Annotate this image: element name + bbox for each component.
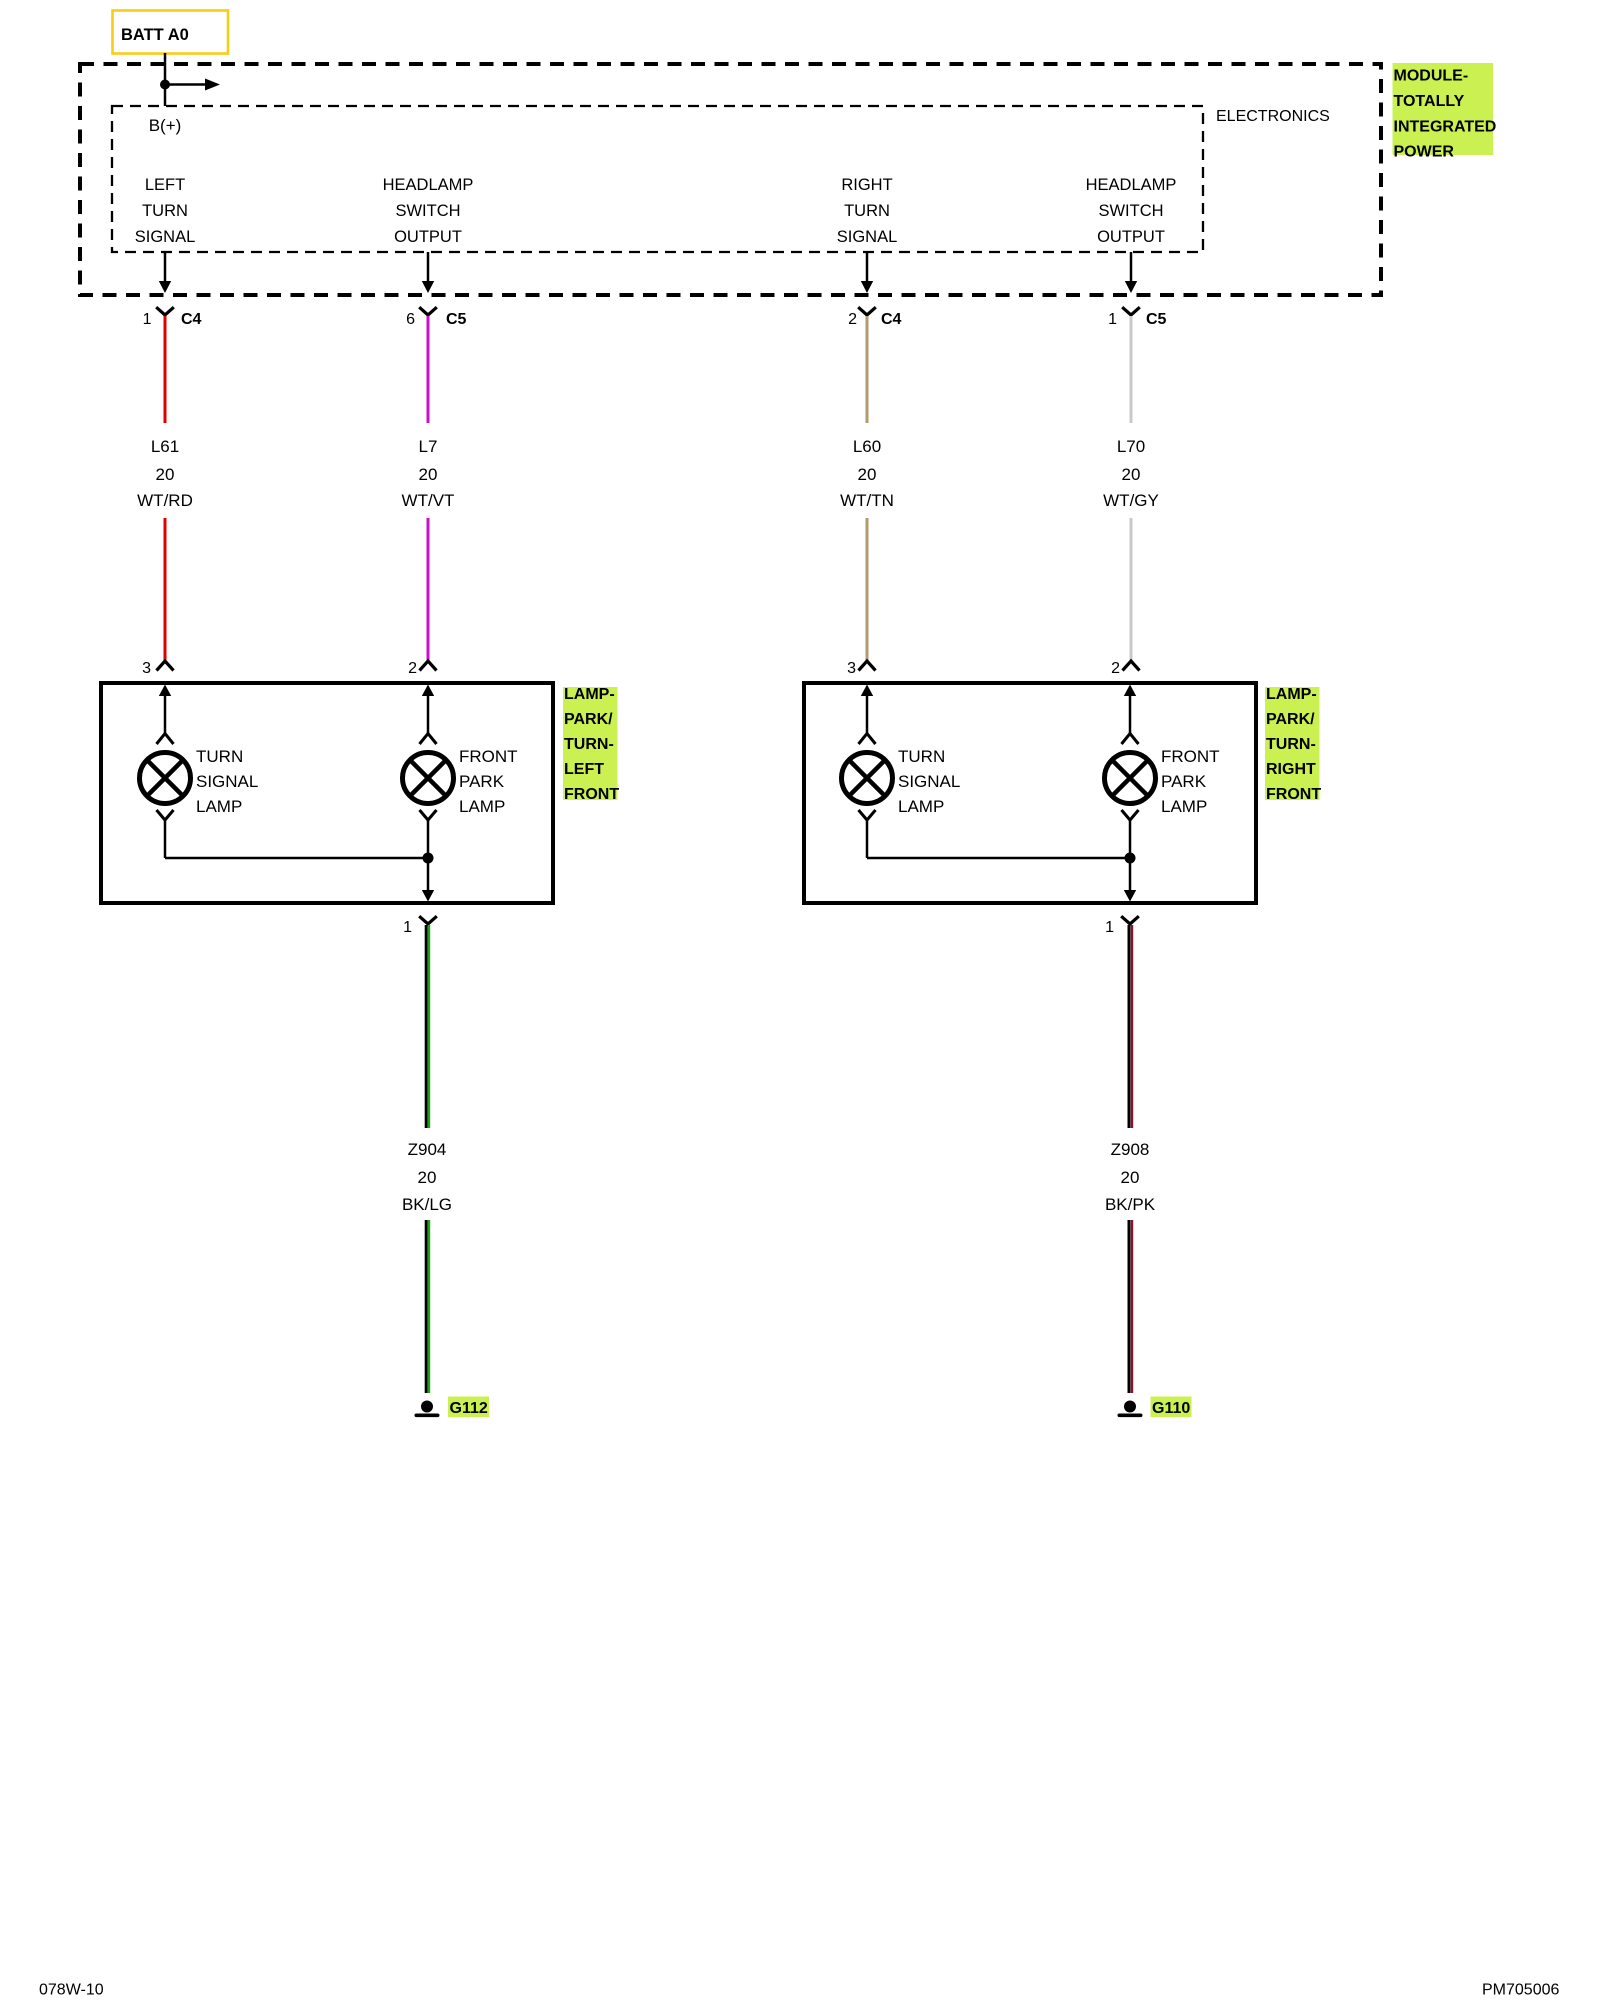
- svg-text:POWER: POWER: [1394, 144, 1455, 161]
- svg-text:B(+): B(+): [149, 116, 182, 135]
- svg-text:SWITCH: SWITCH: [1098, 202, 1163, 220]
- svg-text:20: 20: [1121, 1168, 1140, 1187]
- svg-text:HEADLAMP: HEADLAMP: [1086, 176, 1177, 194]
- svg-text:PARK: PARK: [1161, 772, 1207, 791]
- svg-text:FRONT: FRONT: [564, 786, 619, 803]
- svg-text:RIGHT: RIGHT: [1266, 761, 1316, 778]
- svg-text:Z908: Z908: [1111, 1140, 1150, 1159]
- svg-text:TURN: TURN: [196, 747, 243, 766]
- svg-text:SWITCH: SWITCH: [395, 202, 460, 220]
- svg-text:L61: L61: [151, 437, 179, 456]
- svg-text:LEFT: LEFT: [564, 761, 604, 778]
- svg-text:TURN: TURN: [898, 747, 945, 766]
- svg-text:TURN-: TURN-: [564, 736, 614, 753]
- svg-text:BATT A0: BATT A0: [121, 26, 189, 44]
- svg-text:L70: L70: [1117, 437, 1145, 456]
- svg-text:Z904: Z904: [408, 1140, 447, 1159]
- svg-text:RIGHT: RIGHT: [841, 176, 892, 194]
- svg-text:2: 2: [1111, 660, 1120, 677]
- svg-text:3: 3: [847, 660, 856, 677]
- svg-text:WT/GY: WT/GY: [1103, 491, 1159, 510]
- svg-text:078W-10: 078W-10: [39, 1982, 104, 1999]
- svg-text:TURN: TURN: [844, 202, 890, 220]
- svg-text:C5: C5: [446, 311, 467, 328]
- svg-text:TOTALLY: TOTALLY: [1394, 93, 1465, 110]
- svg-text:OUTPUT: OUTPUT: [394, 228, 462, 246]
- svg-text:2: 2: [408, 660, 417, 677]
- svg-text:BK/LG: BK/LG: [402, 1195, 452, 1214]
- svg-text:FRONT: FRONT: [1161, 747, 1220, 766]
- svg-text:LEFT: LEFT: [145, 176, 185, 194]
- svg-text:1: 1: [143, 311, 152, 328]
- svg-text:20: 20: [418, 1168, 437, 1187]
- svg-text:20: 20: [156, 465, 175, 484]
- svg-text:FRONT: FRONT: [459, 747, 518, 766]
- svg-text:ELECTRONICS: ELECTRONICS: [1216, 108, 1330, 125]
- svg-text:FRONT: FRONT: [1266, 786, 1321, 803]
- svg-text:LAMP-: LAMP-: [1266, 686, 1317, 703]
- svg-text:SIGNAL: SIGNAL: [898, 772, 960, 791]
- svg-text:C4: C4: [881, 311, 902, 328]
- svg-text:SIGNAL: SIGNAL: [135, 228, 196, 246]
- svg-text:BK/PK: BK/PK: [1105, 1195, 1156, 1214]
- svg-text:1: 1: [1108, 311, 1117, 328]
- svg-text:WT/TN: WT/TN: [840, 491, 894, 510]
- svg-text:20: 20: [1122, 465, 1141, 484]
- svg-text:G110: G110: [1152, 1400, 1190, 1417]
- svg-text:INTEGRATED: INTEGRATED: [1394, 118, 1497, 135]
- svg-text:LAMP: LAMP: [459, 797, 505, 816]
- svg-text:1: 1: [1105, 919, 1114, 936]
- svg-text:LAMP: LAMP: [1161, 797, 1207, 816]
- svg-text:PM705006: PM705006: [1482, 1982, 1559, 1999]
- svg-text:LAMP: LAMP: [898, 797, 944, 816]
- svg-text:SIGNAL: SIGNAL: [837, 228, 898, 246]
- svg-text:1: 1: [403, 919, 412, 936]
- svg-text:L60: L60: [853, 437, 881, 456]
- svg-text:PARK/: PARK/: [564, 711, 613, 728]
- svg-text:MODULE-: MODULE-: [1394, 68, 1469, 85]
- svg-text:20: 20: [858, 465, 877, 484]
- svg-text:G112: G112: [450, 1400, 488, 1417]
- svg-text:2: 2: [848, 311, 857, 328]
- svg-text:C5: C5: [1146, 311, 1167, 328]
- svg-text:LAMP: LAMP: [196, 797, 242, 816]
- svg-text:TURN: TURN: [142, 202, 188, 220]
- svg-text:LAMP-: LAMP-: [564, 686, 615, 703]
- svg-text:20: 20: [419, 465, 438, 484]
- svg-text:C4: C4: [181, 311, 202, 328]
- svg-text:3: 3: [142, 660, 151, 677]
- svg-text:WT/VT: WT/VT: [402, 491, 455, 510]
- svg-text:PARK/: PARK/: [1266, 711, 1315, 728]
- svg-text:WT/RD: WT/RD: [137, 491, 193, 510]
- svg-text:L7: L7: [419, 437, 438, 456]
- svg-text:6: 6: [406, 311, 415, 328]
- svg-text:SIGNAL: SIGNAL: [196, 772, 258, 791]
- svg-text:TURN-: TURN-: [1266, 736, 1316, 753]
- svg-text:PARK: PARK: [459, 772, 505, 791]
- svg-text:HEADLAMP: HEADLAMP: [383, 176, 474, 194]
- svg-text:OUTPUT: OUTPUT: [1097, 228, 1165, 246]
